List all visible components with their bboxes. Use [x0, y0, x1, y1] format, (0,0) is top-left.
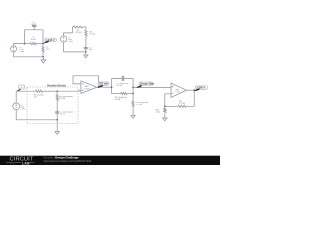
svg-text:100 nF: 100 nF — [30, 24, 36, 26]
resistor R3 — [73, 26, 82, 28]
capacitor C2 — [84, 48, 88, 49]
ground below module — [55, 132, 59, 135]
wire flag to V3 — [15, 91, 17, 103]
ground circuit 2 — [84, 52, 88, 58]
wire node A to R1 — [25, 43, 31, 45]
ground R8 — [131, 115, 135, 118]
label R1 value — [31, 37, 37, 41]
wire riser to OA2 inverting input — [165, 94, 171, 107]
capacitor C3 dummyload — [55, 112, 59, 120]
junction circuit 2 ground node — [85, 51, 87, 53]
svg-text:R1: R1 — [32, 37, 34, 39]
label OA2 — [174, 88, 181, 93]
label R9 value — [179, 101, 185, 105]
svg-text:Scope_Max: Scope_Max — [140, 83, 154, 86]
node B junction — [42, 43, 44, 45]
logo sine wire — [6, 162, 34, 164]
label R3 value — [75, 30, 82, 34]
label V1 value — [19, 47, 24, 53]
node C junction — [56, 90, 58, 92]
label R2 value — [46, 47, 51, 51]
probe callout highpass output — [136, 82, 154, 88]
capacitor C4 highpass — [122, 76, 124, 81]
svg-text:http://www.circuitlab.com/c/p4: http://www.circuitlab.com/c/p4z5br57v64k — [44, 159, 92, 163]
junction highpass left — [111, 87, 113, 89]
probe callout OA2 output — [194, 86, 207, 91]
svg-text:Rectifier (Diode): Rectifier (Diode) — [47, 84, 66, 87]
op-amp OA2 — [171, 83, 187, 97]
svg-text:4.7 kΩ: 4.7 kΩ — [179, 103, 185, 105]
label C2 value — [89, 47, 94, 51]
label R5 value — [34, 94, 44, 98]
svg-text:100 kΩ: 100 kΩ — [59, 98, 66, 100]
wire OA2 output — [187, 89, 195, 91]
resistor R6 dummyload — [56, 91, 58, 111]
wire R1 to node B — [37, 43, 43, 45]
wire OA1 output — [97, 86, 112, 88]
wire to ground below box — [56, 120, 58, 132]
wire V1 top to node A — [14, 44, 25, 46]
dashed module box Rectifier — [27, 87, 78, 124]
svg-text:10 kΩ: 10 kΩ — [115, 99, 121, 101]
resistor R1 — [30, 43, 36, 45]
label C1 value — [30, 22, 36, 26]
label C4 value — [116, 83, 128, 87]
svg-text:100 nF: 100 nF — [116, 85, 123, 87]
label R4 value — [89, 31, 95, 35]
wire R3 to R4 — [82, 27, 86, 30]
svg-text:Kimcho | Design Challenge: Kimcho | Design Challenge — [44, 156, 80, 160]
svg-text:4.7 kΩ: 4.7 kΩ — [136, 104, 142, 106]
svg-text:LAB: LAB — [22, 161, 30, 165]
svg-text:1 kHz: 1 kHz — [19, 51, 24, 53]
wire C2 to bottom rail — [85, 49, 87, 52]
wire R4 to C2 — [85, 36, 87, 47]
svg-text:1 kΩ: 1 kΩ — [46, 49, 51, 51]
svg-text:1 kHz: 1 kHz — [68, 41, 73, 43]
svg-text:TL081: TL081 — [174, 92, 181, 94]
wire node C to op-amp input — [57, 89, 81, 92]
op-amp OA2 input polarity marks — [172, 86, 173, 94]
resistor R5 — [36, 90, 43, 92]
label R8 value — [136, 102, 148, 106]
wire highpass to OA2 — [133, 86, 171, 88]
op-amp OA1 — [81, 81, 97, 94]
label R7 value — [115, 97, 127, 101]
resistor R9 feedback — [178, 105, 186, 107]
junction OA1 output — [98, 86, 100, 88]
voltage source V1 — [11, 46, 17, 52]
wire OA2 feedback down and left — [186, 90, 194, 106]
high-pass loop top wires — [112, 78, 134, 80]
svg-text:10 kΩ: 10 kΩ — [31, 39, 37, 41]
junction OA2 output node — [193, 89, 195, 91]
wire R9 to riser — [165, 105, 178, 107]
wire bottom rail circuit 1 — [14, 52, 44, 57]
resistor R4 — [85, 30, 87, 36]
wire OA1 feedback loop — [73, 76, 99, 87]
svg-text:4.7 kΩ: 4.7 kΩ — [89, 33, 95, 35]
label C3 value — [60, 112, 73, 116]
wire V2 top to R3 — [64, 27, 74, 36]
probe callout OA1 output — [98, 82, 109, 88]
node A junction — [24, 43, 26, 45]
junction highpass bottom right — [132, 93, 134, 95]
resistor R7 highpass (bottom branch) — [112, 92, 134, 94]
resistor R10 to ground — [164, 106, 166, 118]
junction feedback node — [164, 105, 166, 107]
svg-text:707 mV: 707 mV — [99, 83, 108, 86]
voltage source V2 — [60, 36, 66, 42]
capacitor C1 — [32, 25, 37, 30]
high-pass loop left/right verticals — [112, 79, 134, 94]
label R10 value — [156, 109, 161, 113]
svg-text:1 kΩ: 1 kΩ — [156, 111, 161, 113]
label V3 value — [20, 105, 25, 111]
wire V3 bottom rail — [16, 110, 57, 120]
wire input rail to R5 — [16, 90, 35, 92]
probe callout node B — [44, 38, 57, 43]
svg-text:TL081: TL081 — [84, 88, 91, 90]
resistor R8 to ground — [132, 94, 134, 116]
resistor R2 — [42, 44, 44, 57]
svg-text:1.414 V: 1.414 V — [46, 39, 55, 42]
junction circuit 1 ground node — [42, 56, 44, 58]
svg-text:1.000 V: 1.000 V — [197, 87, 206, 90]
voltage source V3 — [13, 103, 20, 110]
wire C1 loop left/top/right — [25, 30, 44, 44]
junction highpass right — [132, 87, 134, 89]
label R6 value — [59, 96, 72, 100]
wire R5 to node C — [43, 90, 58, 92]
svg-text:1.05 kΩ: 1.05 kΩ — [75, 32, 82, 34]
label V2 value — [68, 37, 73, 43]
label OA1 — [84, 85, 91, 90]
wire bottom rail circuit 2 — [64, 42, 86, 52]
op-amp OA1 input polarity marks — [82, 84, 83, 91]
ground circuit 1 — [41, 57, 46, 63]
node flag IN — [16, 85, 28, 91]
svg-text:100 nF: 100 nF — [60, 114, 67, 116]
junction V3 rail / dummy chain — [56, 119, 58, 121]
svg-text:1 kHz: 1 kHz — [20, 109, 25, 111]
ground R10 — [163, 118, 167, 121]
